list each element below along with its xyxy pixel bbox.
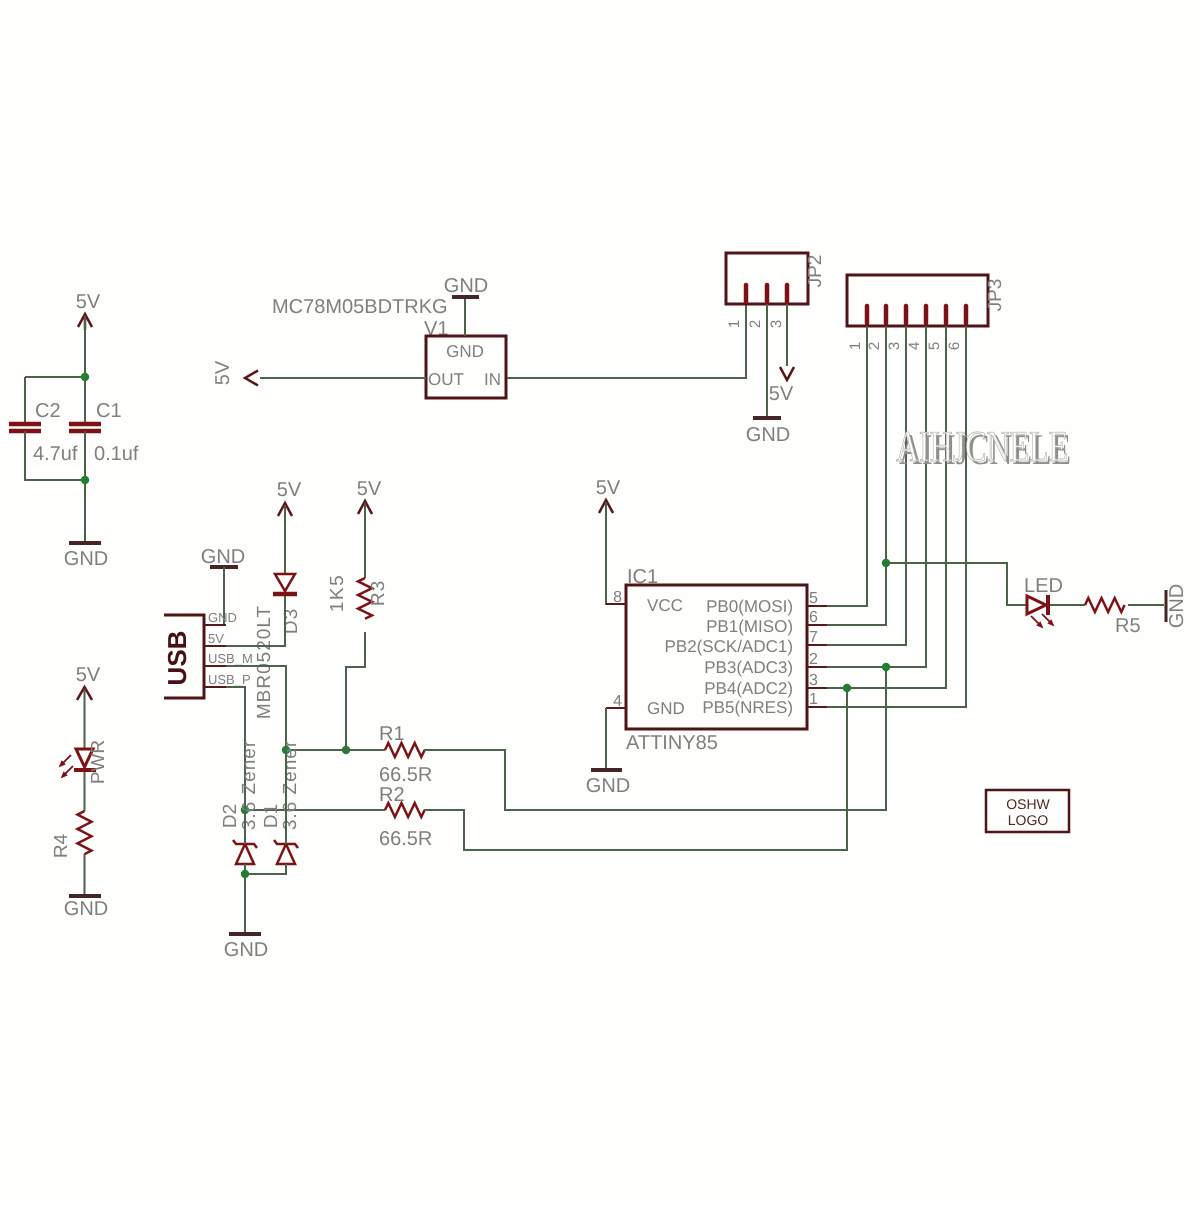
junction PB4 node: [843, 684, 851, 692]
svg-text:2: 2: [809, 651, 818, 668]
svg-text:5V: 5V: [769, 383, 794, 405]
svg-text:4: 4: [613, 693, 622, 710]
svg-text:GND: GND: [446, 342, 484, 361]
svg-text:VCC: VCC: [647, 596, 683, 615]
wire caps bottom to GND: [25, 431, 85, 480]
svg-text:GND: GND: [64, 898, 108, 920]
capacitor C1: [69, 400, 139, 465]
regulator V1 MC78M05BDTRKG: [272, 296, 506, 398]
svg-text:5V: 5V: [212, 360, 234, 385]
svg-text:2: 2: [747, 320, 764, 328]
wire 5V to IC1 VCC pin 8: [606, 502, 607, 604]
svg-text:GND: GND: [746, 424, 790, 446]
svg-text:6: 6: [946, 342, 963, 350]
node 5V supply arrow (PWR LED): [77, 687, 92, 700]
svg-text:4.7uf: 4.7uf: [33, 443, 78, 465]
svg-text:MBR0520LT: MBR0520LT: [254, 605, 275, 719]
pin IC1 5 PB0(MOSI): [706, 590, 827, 616]
svg-text:1: 1: [726, 320, 743, 328]
node 5V supply arrow (top-left caps): [78, 314, 92, 330]
svg-text:OUT: OUT: [428, 370, 464, 389]
pin IC1 7 PB2(SCK/ADC1): [665, 629, 827, 656]
wire R2 to PB4: [424, 688, 847, 850]
ground (above USB): [201, 546, 245, 568]
wire JP2 pin 3 to 5V arrow: [786, 304, 788, 366]
wire PB3 to JP3 pin 4: [827, 326, 926, 667]
node 5V supply arrow (left of V1): [245, 371, 258, 386]
svg-text:D2: D2: [220, 804, 241, 828]
svg-text:5V: 5V: [208, 631, 224, 646]
resistor R3 1K5: [327, 574, 389, 619]
wire V1 OUT to 5V arrow: [260, 377, 426, 379]
svg-text:GND: GND: [201, 546, 245, 568]
junction LED branch node: [882, 559, 890, 567]
svg-text:GND: GND: [444, 275, 488, 297]
ground (right of R5, rotated): [1166, 584, 1188, 628]
pin USB USB_P: [204, 672, 251, 687]
junction top cap node: [81, 373, 89, 381]
wire USB_M to R1 node: [226, 666, 286, 750]
wire 5V to D3: [284, 505, 286, 574]
svg-text:PB4(ADC2): PB4(ADC2): [704, 679, 793, 698]
pin IC1 8 VCC: [606, 589, 683, 615]
junction R1/USB_M/D1 node: [282, 746, 290, 754]
svg-text:GND: GND: [647, 699, 685, 718]
wire GND to USB GND pin: [224, 567, 226, 625]
wire V1 IN to JP2 pin 1: [507, 304, 746, 378]
svg-text:ATTINY85: ATTINY85: [626, 732, 718, 754]
svg-text:JP3: JP3: [985, 279, 1006, 312]
svg-text:R5: R5: [1115, 615, 1141, 637]
pin IC1 4 GND: [606, 693, 685, 718]
wire PWR LED to R4: [84, 772, 86, 811]
junction R3/R1 node: [342, 746, 350, 754]
OSHW LOGO box: [986, 790, 1069, 832]
ground (below JP2 pin 2): [746, 418, 790, 446]
wire R2 node to resistor R2: [245, 809, 385, 811]
node 5V supply arrow (above R3): [358, 501, 372, 514]
ground (below R4): [64, 896, 108, 920]
svg-text:AIHJCNELE: AIHJCNELE: [896, 422, 1068, 471]
wire R1 node to resistor R1: [286, 749, 385, 751]
resistor R2 66.5R: [379, 784, 432, 850]
svg-text:GND: GND: [1166, 584, 1188, 628]
svg-text:3: 3: [886, 342, 903, 350]
svg-text:LOGO: LOGO: [1008, 812, 1049, 828]
wire D1 top: [285, 750, 287, 844]
svg-text:D1: D1: [261, 804, 282, 828]
svg-text:USB_M: USB_M: [208, 651, 253, 666]
connector JP3: [847, 275, 1006, 326]
svg-text:3: 3: [768, 320, 785, 328]
svg-text:MC78M05BDTRKG: MC78M05BDTRKG: [272, 296, 448, 318]
svg-text:LED: LED: [1024, 575, 1063, 597]
svg-text:5V: 5V: [76, 664, 101, 686]
svg-text:PB1(MISO): PB1(MISO): [706, 617, 793, 636]
zener diode D2 3.6 Zener: [220, 740, 260, 864]
wire 5V to C1/C2 tops: [84, 316, 86, 422]
svg-text:GND: GND: [586, 775, 630, 797]
wire D2 top: [244, 810, 246, 844]
wire LED branch: [886, 563, 1027, 605]
wire R3 to R1 node: [346, 632, 365, 750]
wire D3 to USB 5V pin: [226, 596, 285, 646]
wire V1 GND pin up: [464, 298, 466, 336]
svg-text:GND: GND: [224, 939, 268, 961]
wire USB_P to R2 node: [226, 687, 245, 810]
svg-text:66.5R: 66.5R: [379, 828, 432, 850]
svg-text:5V: 5V: [76, 291, 101, 313]
svg-text:R2: R2: [379, 784, 405, 806]
capacitor C2: [9, 400, 78, 465]
svg-text:USB_P: USB_P: [208, 672, 251, 687]
svg-text:GND: GND: [64, 548, 108, 570]
node 5V supply arrow (above D3): [278, 503, 292, 516]
junction bottom cap node: [81, 476, 89, 484]
pin IC1 2 PB3(ADC3): [704, 651, 827, 677]
svg-text:3.6 Zener: 3.6 Zener: [239, 740, 260, 830]
svg-text:R3: R3: [368, 580, 389, 606]
wire IC1 pin4 to GND: [605, 708, 607, 768]
svg-text:GND: GND: [208, 610, 237, 625]
svg-text:USB: USB: [162, 631, 192, 686]
pin USB GND: [204, 610, 237, 625]
ground (above V1): [444, 275, 488, 297]
svg-text:66.5R: 66.5R: [379, 764, 432, 786]
svg-text:5V: 5V: [596, 477, 621, 499]
resistor R4: [51, 811, 92, 858]
wire JP2 pin 2 to GND: [766, 304, 768, 416]
connector USB: [162, 615, 204, 698]
pin IC1 3 PB4(ADC2): [704, 672, 827, 698]
op-amp IC1 box ATTINY85: [626, 566, 807, 754]
svg-text:OSHW: OSHW: [1006, 796, 1050, 812]
svg-text:PB0(MOSI): PB0(MOSI): [706, 597, 793, 616]
svg-text:PWR: PWR: [88, 740, 109, 784]
svg-text:1: 1: [847, 342, 864, 350]
node 5V supply arrow (below JP2 pin 3, pointing down): [780, 367, 794, 380]
ground (below IC1 pin 4): [586, 770, 630, 797]
svg-text:C1: C1: [96, 400, 122, 422]
svg-text:3.6 Zener: 3.6 Zener: [280, 740, 301, 830]
svg-text:5: 5: [926, 342, 943, 350]
wire PB0 to JP3 pin 1: [827, 326, 867, 606]
pin USB 5V: [204, 631, 226, 646]
svg-text:1K5: 1K5: [327, 574, 348, 612]
svg-text:8: 8: [613, 589, 622, 606]
junction R2/USB_P/D2 node: [241, 806, 249, 814]
svg-text:PB3(ADC3): PB3(ADC3): [704, 658, 793, 677]
svg-text:R4: R4: [51, 833, 72, 858]
resistor R5: [1085, 598, 1141, 637]
LED (right): [1024, 575, 1063, 628]
resistor R1 66.5R: [379, 723, 432, 786]
watermark AIHJCNELE: [896, 422, 1071, 474]
wire PB1 to JP3 pin 2: [827, 326, 886, 625]
svg-text:6: 6: [809, 609, 818, 626]
svg-text:2: 2: [866, 342, 883, 350]
wire PB5 to JP3 pin 6: [827, 326, 966, 707]
svg-text:PB2(SCK/ADC1): PB2(SCK/ADC1): [665, 637, 793, 656]
wire 5V to R3: [364, 503, 366, 578]
pin USB USB_M: [204, 651, 253, 666]
wire zener bottoms to GND: [245, 864, 286, 874]
svg-text:5: 5: [809, 590, 818, 607]
LED PWR: [60, 740, 110, 784]
wire R5 to GND: [1128, 604, 1164, 606]
svg-text:4: 4: [906, 342, 923, 350]
svg-text:5V: 5V: [357, 478, 382, 500]
wire R1 to PB3: [424, 667, 886, 810]
svg-text:C2: C2: [35, 400, 61, 422]
connector JP2: [726, 253, 826, 304]
ground (below D2/D1): [224, 934, 268, 961]
zener diode D1 3.6 Zener: [261, 740, 301, 864]
svg-text:PB5(NRES): PB5(NRES): [702, 698, 793, 717]
svg-text:1: 1: [809, 691, 818, 708]
wire PB2 to JP3 pin 3: [827, 326, 906, 645]
pin IC1 6 PB1(MISO): [706, 609, 827, 636]
junction PB3 node: [882, 663, 890, 671]
ground (below C1/C2): [64, 543, 108, 570]
wire PB4 to JP3 pin 5: [827, 326, 946, 688]
pin IC1 1 PB5(NRES): [702, 691, 827, 717]
svg-text:JP2: JP2: [805, 255, 826, 288]
svg-text:7: 7: [809, 629, 818, 646]
svg-text:3: 3: [809, 672, 818, 689]
svg-text:R1: R1: [379, 723, 405, 745]
junction zener GND node: [241, 870, 249, 878]
pin marks JP2 1-3: [746, 285, 787, 302]
svg-text:IN: IN: [484, 370, 501, 389]
wire LED to R5: [1050, 604, 1085, 606]
diode D3 MBR0520LT: [254, 574, 302, 719]
wire 5V to PWR LED: [84, 689, 86, 749]
pin marks JP3 1-6: [867, 306, 966, 323]
wire R4 to GND: [84, 854, 86, 894]
node 5V supply arrow (above IC1): [599, 500, 613, 513]
svg-text:5V: 5V: [277, 479, 302, 501]
svg-text:0.1uf: 0.1uf: [94, 443, 139, 465]
